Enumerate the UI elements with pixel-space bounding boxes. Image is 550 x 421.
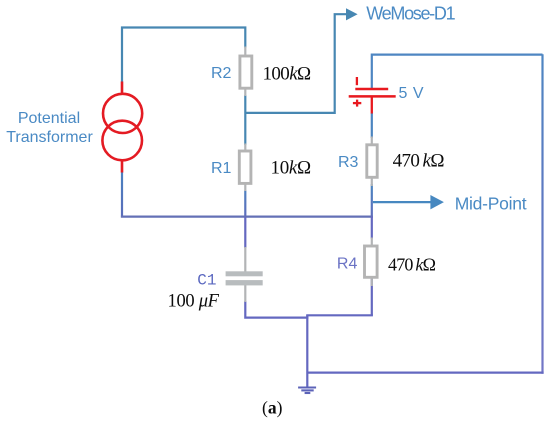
svg-text:C1: C1 [197, 272, 216, 290]
svg-text:Mid-Point: Mid-Point [455, 194, 527, 214]
svg-text:R2: R2 [211, 65, 232, 82]
svg-text:100 μF: 100 μF [168, 292, 220, 312]
svg-text:100kΩ: 100kΩ [263, 63, 312, 84]
svg-text:Potential: Potential [18, 110, 80, 127]
svg-text:R4: R4 [337, 255, 358, 272]
svg-text:R3: R3 [338, 154, 359, 171]
svg-text:470 kΩ: 470 kΩ [388, 255, 436, 275]
svg-text:WeMose-D1: WeMose-D1 [366, 4, 455, 24]
svg-text:R1: R1 [211, 160, 232, 177]
svg-text:Transformer: Transformer [6, 129, 93, 146]
svg-text:10kΩ: 10kΩ [271, 158, 312, 179]
svg-text:470 kΩ: 470 kΩ [393, 151, 445, 172]
svg-text:(a): (a) [262, 397, 283, 417]
svg-text:5 V: 5 V [399, 85, 425, 102]
